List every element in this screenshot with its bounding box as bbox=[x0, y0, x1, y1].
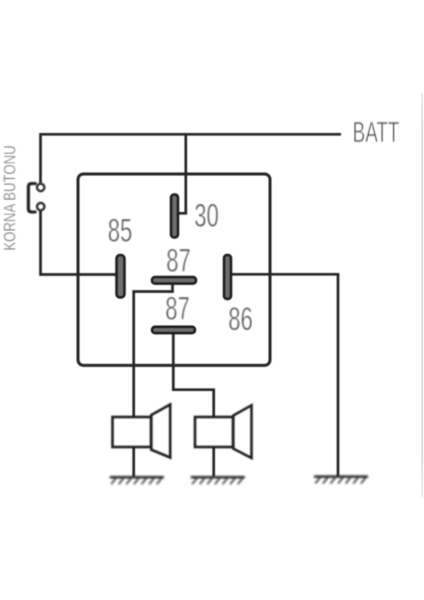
svg-text:87: 87 bbox=[166, 242, 191, 278]
svg-text:KORNA BUTONU: KORNA BUTONU bbox=[1, 145, 20, 250]
svg-text:85: 85 bbox=[108, 212, 133, 248]
svg-text:87: 87 bbox=[165, 290, 190, 326]
svg-text:30: 30 bbox=[194, 197, 219, 233]
svg-text:86: 86 bbox=[228, 301, 253, 337]
svg-text:BATT: BATT bbox=[353, 117, 400, 149]
